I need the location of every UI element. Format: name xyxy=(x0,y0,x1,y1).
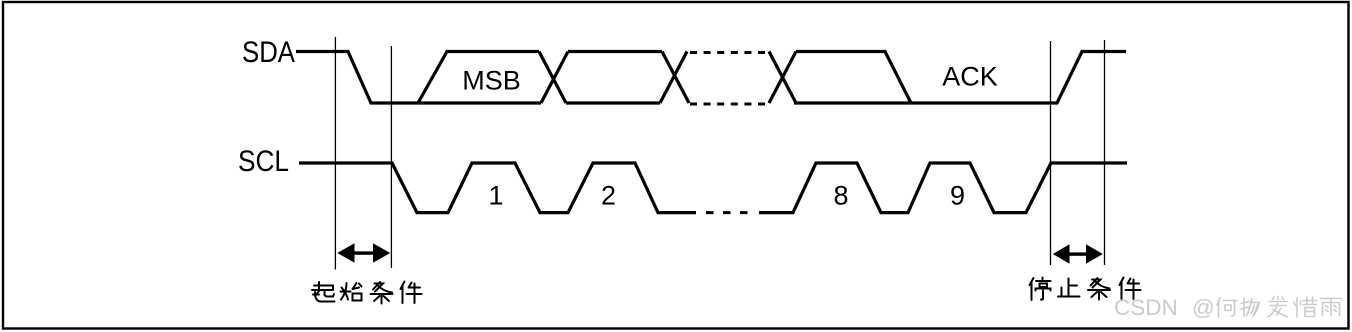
wire SDA crossover X1 rise xyxy=(541,52,568,104)
label start-condition char SHI (始) xyxy=(341,283,362,301)
svg-text:1: 1 xyxy=(488,181,503,211)
start condition double arrow xyxy=(337,243,390,262)
stop condition right marker line xyxy=(1104,40,1106,265)
label stop-condition char TING (停) xyxy=(1030,278,1051,301)
wire SCL dashed low segment xyxy=(706,211,748,214)
stop condition double arrow xyxy=(1053,244,1103,263)
wire SDA dashed low segment xyxy=(690,103,770,106)
svg-text:ACK: ACK xyxy=(942,62,998,92)
label start-condition char QI (起) xyxy=(312,282,335,302)
svg-text:2: 2 xyxy=(601,181,616,211)
svg-text:MSB: MSB xyxy=(462,66,521,96)
watermark char WU (物) xyxy=(1241,298,1260,317)
wire SDA eye1 rise and MSB top xyxy=(418,52,539,104)
wire SDA eye2 bottom xyxy=(566,101,660,104)
label stop-condition char JIAN (件) xyxy=(1120,278,1141,300)
watermark char YU (雨) xyxy=(1321,299,1342,316)
watermark char AI (爱) xyxy=(1268,297,1288,318)
svg-text:@: @ xyxy=(1192,295,1215,320)
svg-text:SDA: SDA xyxy=(242,36,295,69)
svg-text:8: 8 xyxy=(833,181,848,211)
svg-text:9: 9 xyxy=(950,181,965,211)
stop condition left marker line xyxy=(1050,41,1052,265)
wire SDA crossover X3 rise xyxy=(769,52,796,104)
start condition right marker line xyxy=(390,46,392,268)
wire SDA eye3 top and fall xyxy=(796,52,911,104)
wire SDA eye2 top xyxy=(568,50,662,53)
svg-text:SCL: SCL xyxy=(238,145,289,178)
wire SDA dashed high segment xyxy=(690,51,770,54)
wire SDA crossover X1 fall xyxy=(539,52,566,104)
wire SDA lead-in high, fall, low (eye1 bottom) xyxy=(296,52,541,104)
wire SDA eye3 bottom, ACK low, final rise, high xyxy=(794,52,1126,104)
watermark char XI (惜) xyxy=(1294,297,1317,317)
wire SDA crossover X3 fall xyxy=(769,52,796,104)
wire SDA crossover X2 fall xyxy=(662,52,689,104)
wire SCL waveform right: pulses 8-9, final rise, high xyxy=(759,163,1127,213)
label stop-condition char TIAO (条) xyxy=(1088,278,1110,300)
label start-condition char JIAN (件) xyxy=(401,282,422,304)
start condition left marker line xyxy=(334,37,336,270)
wire SCL waveform left: high, fall, pulses 1-2 xyxy=(299,163,696,213)
wire SDA crossover X2 rise xyxy=(660,52,687,104)
label start-condition char TIAO (条) xyxy=(371,282,393,304)
watermark char HE (何) xyxy=(1217,298,1237,317)
svg-text:CSDN: CSDN xyxy=(1114,295,1178,320)
label stop-condition char ZHI (止) xyxy=(1058,279,1080,297)
